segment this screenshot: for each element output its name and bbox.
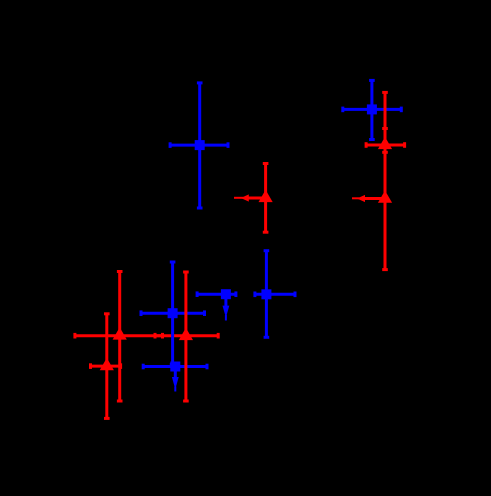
point A (blue sq 199.7,145.1) x-error bar <box>170 142 228 148</box>
marker K red triangle <box>100 358 114 370</box>
point H y-error bar <box>264 251 270 338</box>
marker J red triangle <box>179 328 193 340</box>
point G (blue sq 225.9,294.2) x-error bar <box>197 291 236 297</box>
marker E red triangle <box>378 191 392 203</box>
point C y-error bar <box>369 80 375 139</box>
marker L blue square <box>170 362 180 372</box>
point M y-error bar <box>170 262 176 364</box>
marker M blue square <box>168 308 178 318</box>
point L down arrow <box>172 367 179 392</box>
point J (red tri 185.9,336.0) x-error bar <box>155 333 218 339</box>
marker G blue square <box>221 289 231 299</box>
point L (blue sq 175.3,366.5) x-error bar <box>143 364 207 370</box>
point K (red tri 106.8,366.1) x-error bar <box>91 363 121 369</box>
points D/E shared y-error bar <box>382 92 388 269</box>
marker C blue square <box>367 104 377 114</box>
point D (red tri 385.0,145.0) x-error bar <box>366 142 405 148</box>
point M (blue sq 172.6,313.2) x-error bar <box>141 310 205 316</box>
marker B red triangle <box>259 190 273 202</box>
point B (red tri 265.6,198.0) y-error bar <box>263 164 269 233</box>
marker H blue square <box>261 289 271 299</box>
point I (red tri 119.7,335.5) x-error bar <box>75 333 163 339</box>
point C (blue sq 371.9,109.4) x-error bar <box>343 107 402 113</box>
point E left arrow <box>352 195 385 202</box>
point H (blue sq 266.4,294.3) x-error bar <box>255 292 295 298</box>
marker I red triangle <box>113 327 127 339</box>
point K y-error bar <box>104 314 110 419</box>
point G down arrow <box>223 294 230 320</box>
point B left arrow <box>234 194 266 201</box>
marker A blue square <box>195 140 205 150</box>
point A y-error bar <box>197 83 203 208</box>
marker D red triangle <box>378 137 392 149</box>
point I y-error bar <box>117 272 123 402</box>
point J y-error bar <box>183 272 189 401</box>
